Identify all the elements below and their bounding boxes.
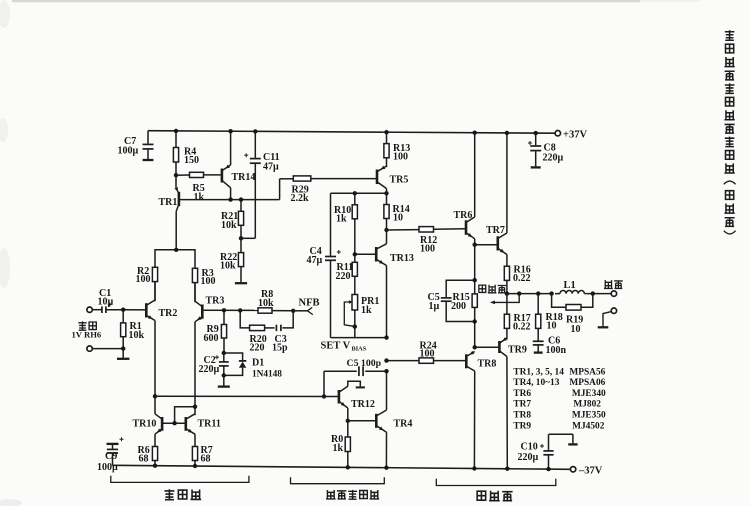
resistor R29 xyxy=(280,176,377,204)
svg-text:100: 100 xyxy=(136,274,151,285)
wire TR1 base to R29 xyxy=(179,179,279,200)
resistor R8 xyxy=(258,289,293,313)
node input terminal lower xyxy=(87,346,123,351)
svg-text:TR2: TR2 xyxy=(159,308,178,319)
wire TR12 emitter xyxy=(347,408,349,421)
wire TR8 collector / TR9 base xyxy=(475,346,499,348)
potentiometer PR1 xyxy=(344,295,379,327)
node L1 left junction xyxy=(549,291,553,295)
diode D1 xyxy=(224,353,283,380)
svg-text:10k: 10k xyxy=(220,260,236,271)
node C2/D1 bottom junction xyxy=(222,373,226,377)
resistor R9 xyxy=(204,310,227,353)
wire TR8 emitter to rail xyxy=(473,371,475,469)
node R7-rail junction xyxy=(193,464,197,468)
svg-text:TR10: TR10 xyxy=(133,418,157,429)
resistor R6 xyxy=(138,434,158,466)
svg-text:TR8: TR8 xyxy=(478,359,497,370)
wire C5 to TR12 base xyxy=(323,371,325,396)
wire TR6 emitter column through R15 xyxy=(474,245,476,348)
resistor R13 xyxy=(384,132,410,167)
svg-text:100µ: 100µ xyxy=(118,145,139,156)
svg-text:100n: 100n xyxy=(546,345,567,356)
svg-text:1N4148: 1N4148 xyxy=(252,370,282,380)
node R14/R12/TR13 junction xyxy=(384,228,388,232)
svg-text:TR6: TR6 xyxy=(454,210,473,221)
resistor R19 xyxy=(552,294,593,335)
svg-text:MPSA56: MPSA56 xyxy=(569,367,605,377)
wire TR4 collector xyxy=(386,371,388,410)
svg-text:TR5: TR5 xyxy=(390,175,409,186)
svg-text:TR11: TR11 xyxy=(198,418,221,429)
wire TR5/R10/C4 node xyxy=(331,192,387,194)
wire output node xyxy=(507,293,552,295)
node R18 junction xyxy=(536,291,540,295)
svg-text:TR4: TR4 xyxy=(394,419,413,430)
svg-text:220µ: 220µ xyxy=(543,152,564,163)
node rail-TR6 junction xyxy=(473,131,477,135)
label voltage amp stage brace xyxy=(291,477,385,499)
svg-text:TR9: TR9 xyxy=(508,345,527,356)
wire TR12 emitter to TR4 base xyxy=(348,420,375,422)
svg-text:100: 100 xyxy=(420,243,435,254)
resistor R1 xyxy=(121,310,145,349)
capacitor C8 xyxy=(528,133,564,167)
resistor R21 xyxy=(221,200,244,239)
wire TR6 collector to rail xyxy=(474,133,476,217)
node TR8/TR9 junction xyxy=(473,345,477,349)
resistor R18 xyxy=(536,294,563,341)
svg-text:15p: 15p xyxy=(272,342,288,353)
svg-text:L1: L1 xyxy=(564,280,576,291)
node rail-R4 junction xyxy=(174,129,178,133)
svg-text:1k: 1k xyxy=(333,443,344,454)
resistor R16 xyxy=(504,255,530,294)
capacitor C9 xyxy=(97,437,124,473)
node R4/R5/TR1 junction xyxy=(174,173,178,177)
transistor TR13 xyxy=(376,244,414,266)
capacitor C7 xyxy=(118,131,154,160)
resistor R14 xyxy=(384,193,410,230)
wire PR1 to Vbias line xyxy=(354,327,356,338)
svg-text:C9: C9 xyxy=(105,451,117,462)
node PR1 wiper junction xyxy=(353,324,357,328)
svg-text:10k: 10k xyxy=(129,330,145,341)
wire TR3 base to NFB node xyxy=(204,309,258,311)
resistor R15 xyxy=(451,292,477,312)
svg-text:–37V: –37V xyxy=(578,465,603,476)
wire mirror node to TR12 base xyxy=(155,395,339,397)
node TR5/R14 junction xyxy=(384,191,388,195)
svg-text:100µ: 100µ xyxy=(97,462,118,473)
svg-text:TR1: TR1 xyxy=(159,197,178,208)
wire NFB takeoff arrow xyxy=(490,294,519,305)
node R24 junction xyxy=(384,358,388,362)
capacitor C10 xyxy=(518,434,578,469)
node R9 top junction xyxy=(222,308,226,312)
node C5/TR4 junction xyxy=(384,369,388,373)
node tail junction xyxy=(174,248,178,252)
svg-text:MJ802: MJ802 xyxy=(573,400,601,410)
ground R22 termination bar xyxy=(235,282,247,284)
wire TR13 base xyxy=(355,253,375,255)
capacitor C3 xyxy=(272,311,293,354)
svg-text:100: 100 xyxy=(201,276,216,287)
svg-text:MJE340: MJE340 xyxy=(572,389,606,399)
capacitor C4 xyxy=(307,193,341,337)
svg-text:SET V: SET V xyxy=(321,341,351,352)
resistor R10 xyxy=(334,193,357,254)
svg-text:NFB: NFB xyxy=(299,298,320,309)
node TR14 collector junction xyxy=(228,197,232,201)
resistor R7 xyxy=(192,434,212,466)
transistor TR2 xyxy=(146,300,177,321)
capacitor C6 xyxy=(533,335,567,356)
svg-text:10k: 10k xyxy=(258,298,274,309)
svg-text:TR6: TR6 xyxy=(513,389,531,399)
node input terminal upper xyxy=(87,307,92,312)
svg-text:68: 68 xyxy=(139,454,149,465)
svg-text:47µ: 47µ xyxy=(307,255,323,266)
capacitor C5 1u xyxy=(428,280,475,321)
svg-text:C10: C10 xyxy=(521,442,538,453)
node C1/R1 junction xyxy=(121,308,125,312)
svg-text:0.22: 0.22 xyxy=(513,322,531,333)
node -37V terminal xyxy=(570,465,602,476)
capacitor C5 100p xyxy=(324,358,387,376)
svg-text:150: 150 xyxy=(184,155,199,166)
transistor TR5 xyxy=(377,166,408,189)
node NFB junction xyxy=(291,309,295,313)
label output (shu chu) xyxy=(604,280,623,288)
svg-text:220: 220 xyxy=(336,271,351,282)
resistor R4 xyxy=(173,131,199,175)
wire TR6 emitter to TR7 base xyxy=(475,239,497,245)
svg-text:+37V: +37V xyxy=(563,130,587,141)
resistor R20 xyxy=(240,310,274,353)
label output stage brace xyxy=(436,479,556,501)
inductor L1 xyxy=(555,280,611,293)
svg-text:TR3: TR3 xyxy=(206,296,225,307)
node R21/R22/C11 junction xyxy=(239,236,243,240)
node base tie junction xyxy=(172,421,176,425)
node rail-C11 junction xyxy=(253,129,257,133)
transistor TR7 xyxy=(486,225,507,255)
wire TR9 emitter to rail xyxy=(506,357,508,469)
svg-text:100: 100 xyxy=(420,348,435,359)
wire VAS output to R24 xyxy=(387,360,420,362)
svg-text:1k: 1k xyxy=(361,305,372,316)
node R1 bottom junction xyxy=(121,346,125,350)
node TR4-rail junction xyxy=(384,466,388,470)
svg-text:TR13: TR13 xyxy=(390,253,414,264)
node TR9-rail junction xyxy=(505,467,509,471)
node R10 top junction xyxy=(353,191,357,195)
svg-text:220: 220 xyxy=(250,342,265,353)
transistor TR1 xyxy=(159,175,179,250)
svg-text:68: 68 xyxy=(201,454,211,465)
svg-text:10µ: 10µ xyxy=(98,297,114,308)
label book title vertical text xyxy=(724,30,736,234)
transistor TR9 xyxy=(499,337,527,356)
node C2/D1 top junction xyxy=(222,351,226,355)
label NFB xyxy=(299,298,320,309)
svg-text:10: 10 xyxy=(393,212,403,223)
node NFB takeoff junction xyxy=(517,291,521,295)
svg-text:600: 600 xyxy=(204,333,219,344)
capacitor C1 xyxy=(92,288,123,313)
node R10/R11/TR13 junction xyxy=(353,252,357,256)
node C10-rail junction xyxy=(546,467,550,471)
node rail-R13 junction xyxy=(384,130,388,134)
resistor R17 xyxy=(504,294,530,340)
scan artifact left edge smudges xyxy=(0,0,10,28)
ground input termination bar xyxy=(117,349,129,359)
wire +37V supply rail xyxy=(148,131,555,134)
svg-text:TR9: TR9 xyxy=(513,421,531,431)
svg-text:TR14: TR14 xyxy=(232,172,256,183)
svg-text:1k: 1k xyxy=(336,213,347,224)
svg-text:TR1, 3, 5, 14: TR1, 3, 5, 14 xyxy=(513,367,564,377)
svg-text:10: 10 xyxy=(547,321,557,332)
node TR8-rail junction xyxy=(472,466,476,470)
wire TR10 collector to TR2 column xyxy=(154,396,156,414)
resistor R11 xyxy=(336,254,358,294)
wire input-pair tail xyxy=(155,250,195,268)
wire TR12 collector stub xyxy=(348,381,365,387)
svg-text:220µ: 220µ xyxy=(518,452,539,463)
svg-text:TR7: TR7 xyxy=(513,400,531,410)
svg-text:BIAS: BIAS xyxy=(352,346,367,353)
svg-text:200: 200 xyxy=(451,301,466,312)
node rail-C8 junction xyxy=(534,131,538,135)
transistor TR14 xyxy=(222,131,256,199)
svg-text:TR12: TR12 xyxy=(351,399,375,410)
svg-text:100: 100 xyxy=(393,151,408,162)
capacitor C11 xyxy=(241,131,280,238)
transistor TR6 xyxy=(454,210,475,239)
label SET Vbias xyxy=(321,341,367,353)
svg-text:MJ4502: MJ4502 xyxy=(572,421,605,431)
node R6-rail junction xyxy=(153,464,157,468)
transistor TR11 xyxy=(186,414,221,434)
node output terminal lower xyxy=(611,308,616,313)
node Vbias junction xyxy=(384,335,388,339)
wire TR2 emitter/collector columns xyxy=(154,282,156,397)
label input stage brace xyxy=(111,476,249,500)
svg-text:47µ: 47µ xyxy=(263,161,279,172)
svg-text:220µ: 220µ xyxy=(199,364,220,375)
svg-text:TR8: TR8 xyxy=(513,411,531,421)
node R15/C5 top junction xyxy=(473,278,477,282)
node TR12/R0/TR4 junction xyxy=(346,419,350,423)
ground output return bar xyxy=(598,312,612,328)
node output terminal upper xyxy=(611,291,616,296)
svg-text:C5 100p: C5 100p xyxy=(347,358,382,369)
resistor R24 xyxy=(419,340,465,363)
svg-text:1V RH6: 1V RH6 xyxy=(72,330,102,340)
node rail-TR7 junction xyxy=(505,131,509,135)
wire TR10/TR11 base tie xyxy=(162,407,195,424)
node +37V terminal xyxy=(555,130,587,141)
svg-text:1k: 1k xyxy=(194,192,205,203)
transistor TR10 xyxy=(133,414,163,434)
node R20 branch junction xyxy=(238,308,242,312)
wire TR7 collector to rail xyxy=(506,133,508,233)
wire TR3 emitter/collector columns xyxy=(194,283,196,416)
wire NFB stub with chevron xyxy=(293,307,313,314)
node rail-TR14 junction xyxy=(228,129,232,133)
wire -37V supply rail xyxy=(113,465,571,469)
node R16/R17 junction xyxy=(505,291,509,295)
node TR11 collector junction xyxy=(193,405,197,409)
node R15/C5 bottom junction xyxy=(473,319,477,323)
svg-text:MPSA06: MPSA06 xyxy=(569,378,605,388)
wire SET Vbias line xyxy=(331,337,387,339)
node L1 right junction xyxy=(591,291,595,295)
label transistor type list xyxy=(513,367,606,431)
node R0-rail junction xyxy=(346,465,350,469)
node TR2/TR10/TR12-base junction xyxy=(153,394,157,398)
resistor R0 xyxy=(331,421,350,468)
svg-text:MJE350: MJE350 xyxy=(572,411,606,421)
transistor TR3 xyxy=(195,296,224,322)
resistor R22 xyxy=(220,238,244,282)
wire TR13 collector/emitter column xyxy=(386,230,388,338)
transistor TR8 xyxy=(466,351,496,371)
svg-text:10: 10 xyxy=(571,324,581,335)
wire C1 to TR2 base xyxy=(123,309,146,311)
resistor R5 xyxy=(176,172,221,203)
wire TR4 emitter to rail xyxy=(385,432,387,468)
node TR6/TR7 junction xyxy=(473,243,477,247)
transistor TR12 xyxy=(339,386,375,410)
svg-text:2.2k: 2.2k xyxy=(291,193,310,204)
transistor TR4 xyxy=(376,410,412,432)
resistor R12 xyxy=(387,227,466,255)
svg-text:0.22: 0.22 xyxy=(513,273,531,284)
ground C2 termination bar xyxy=(218,375,230,386)
svg-text:D1: D1 xyxy=(252,358,264,369)
svg-text:TR4, 10~13: TR4, 10~13 xyxy=(513,378,559,388)
resistor R2 xyxy=(136,266,158,302)
svg-text:1µ: 1µ xyxy=(429,301,440,312)
label input 1V RH6 xyxy=(72,321,102,339)
svg-text:TR7: TR7 xyxy=(486,225,505,236)
scan artifact top edge xyxy=(12,0,640,2)
resistor R3 xyxy=(192,268,215,303)
node R21 top junction xyxy=(239,197,243,201)
node TR12 base junction xyxy=(322,394,326,398)
svg-text:10k: 10k xyxy=(221,220,237,231)
wire TR5 emitter junction xyxy=(386,189,388,194)
label feedback (fu fan kui) xyxy=(479,285,506,293)
capacitor C2 xyxy=(199,353,229,375)
